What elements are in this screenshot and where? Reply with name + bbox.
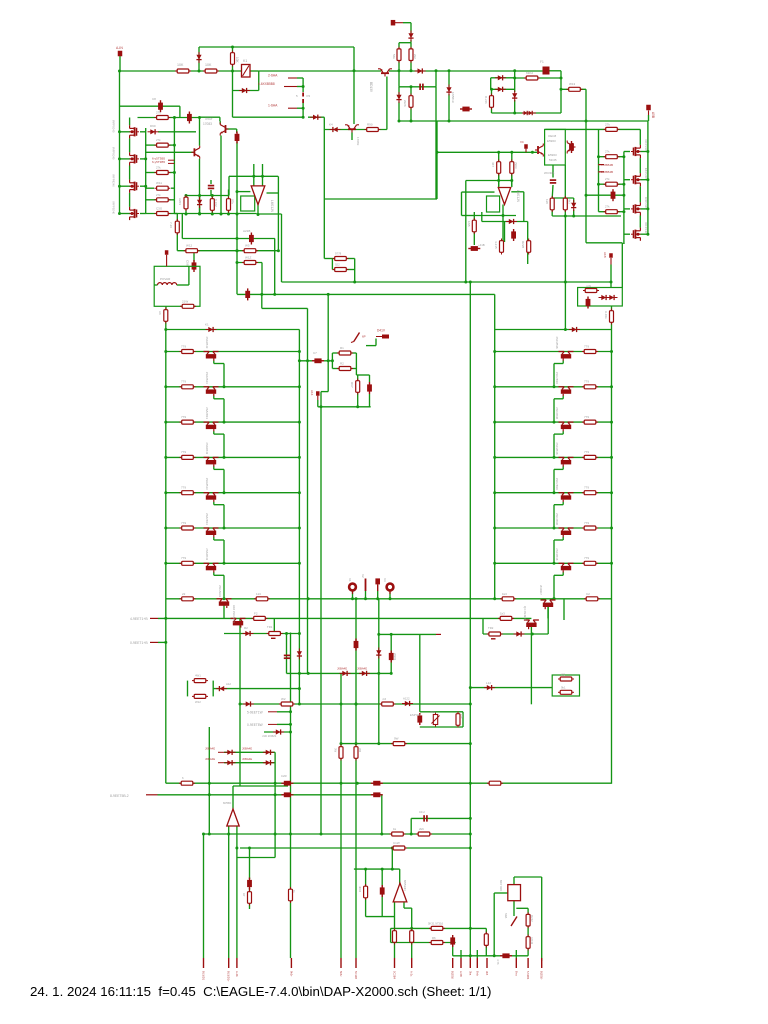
resistor R243 <box>526 935 530 951</box>
wire drain feed l1 <box>129 118 131 126</box>
wire row 743 <box>341 743 470 745</box>
svg-text:5-9EET1W: 5-9EET1W <box>247 711 263 715</box>
junction <box>236 237 239 240</box>
wire r120 row <box>515 77 561 79</box>
svg-text:9k1: 9k1 <box>561 686 566 690</box>
resistor W1 118 <box>558 677 574 681</box>
svg-text:2SA2B43: 2SA2B43 <box>205 337 209 349</box>
wire r126 stub <box>185 196 187 197</box>
wire clb r1 <box>347 258 355 260</box>
wire r162 top <box>511 152 513 162</box>
wire u2 fb top <box>511 191 524 193</box>
resistor R162 <box>510 160 514 176</box>
wire d row <box>515 112 561 114</box>
svg-text:X94Y: X94Y <box>205 117 214 121</box>
wire gate tap l1 <box>140 131 146 133</box>
junction <box>398 69 401 72</box>
svg-text:2N4907: 2N4907 <box>539 585 543 595</box>
junction <box>307 672 310 675</box>
resistor R164 <box>472 218 476 234</box>
junction <box>236 190 239 193</box>
net stub 0-6035B4Bb <box>599 171 605 173</box>
pin stub A16 <box>317 396 319 400</box>
wire col 379 <box>378 599 380 744</box>
wire q51 e drop <box>547 604 549 618</box>
wire q33 e3 <box>223 469 225 492</box>
junction <box>469 703 472 706</box>
wire r1k top <box>611 306 613 311</box>
junction <box>164 456 167 459</box>
wire pin 516 stub <box>515 950 517 958</box>
box R1B cluster <box>578 288 623 307</box>
svg-text:4-215: 4-215 <box>494 241 498 249</box>
wire diode branch <box>198 47 200 71</box>
capacitor C62 <box>460 107 472 112</box>
resistor R132 779 <box>180 420 196 424</box>
resistor R125 <box>175 219 179 235</box>
zener diode Z7 <box>376 648 381 659</box>
svg-text:R2: R2 <box>340 362 344 366</box>
switch S9A <box>511 917 517 927</box>
pin A-2b <box>236 958 238 968</box>
junction <box>327 293 330 296</box>
junction <box>610 456 613 459</box>
svg-text:J0BA4E: J0BA4E <box>205 747 215 751</box>
junction <box>298 456 301 459</box>
wire pin 477 stub <box>476 950 478 958</box>
wire q40 e3 <box>553 364 555 387</box>
pin 5C2B4 <box>394 958 396 968</box>
svg-text:M/55D: M/55D <box>223 801 231 805</box>
svg-text:R1: R1 <box>340 346 344 350</box>
wire r122 link <box>492 112 515 114</box>
junction <box>380 833 383 836</box>
wire c11 low <box>210 190 212 196</box>
wire c10 top <box>236 129 238 133</box>
junction <box>622 155 625 158</box>
pin stub VREF <box>395 22 403 24</box>
wire r122 top <box>491 89 493 96</box>
wire col 411b <box>411 942 413 958</box>
wire u2 in row <box>466 180 512 182</box>
svg-text:779: 779 <box>181 486 186 490</box>
wire drv to bank <box>564 216 566 330</box>
trimmer TR1 wiper <box>271 637 276 639</box>
junction <box>553 385 556 388</box>
wire c7 row <box>299 360 332 362</box>
junction <box>364 868 367 871</box>
svg-text:A5B: A5B <box>651 112 655 118</box>
wire u2 fb col <box>523 192 525 222</box>
junction <box>236 261 239 264</box>
wire down to r1b <box>621 243 623 288</box>
svg-text:L12: L12 <box>486 681 491 685</box>
wire rail 848 <box>240 847 470 849</box>
wire bank row r5 <box>495 492 612 494</box>
wire bank row r6 <box>495 527 612 529</box>
svg-text:IRFP9240: IRFP9240 <box>112 120 116 133</box>
svg-text:R6: R6 <box>432 936 436 940</box>
wire r6y bot <box>357 392 359 407</box>
wire rail tap l2 <box>120 158 131 160</box>
pin A-5B <box>460 958 462 968</box>
svg-text:2SC2B38: 2SC2B38 <box>555 337 559 349</box>
wire q32 e2 <box>214 433 224 435</box>
net stub d29 <box>218 751 224 753</box>
junction <box>298 562 301 565</box>
junction <box>597 155 600 158</box>
wire output rail B <box>158 617 531 619</box>
wire ic8 leg2 <box>236 826 238 958</box>
wire bank row l4 <box>166 456 300 458</box>
wire col 541 <box>541 877 543 961</box>
svg-text:27k: 27k <box>605 122 610 126</box>
mosfet Q20 IRFP9240 <box>130 125 139 138</box>
svg-text:2SC2B38: 2SC2B38 <box>555 513 559 525</box>
pin 5C12B <box>355 958 357 968</box>
wire q33 e2 <box>214 468 224 470</box>
wire bank row l3 <box>166 421 300 423</box>
wire q7c <box>219 121 221 125</box>
wire q31 e1 <box>213 396 215 399</box>
wire bias row r <box>483 633 548 635</box>
junction <box>553 597 556 600</box>
wire r119 bot <box>410 107 412 121</box>
net stub 2-6AA <box>288 77 297 79</box>
wire box inner <box>188 266 190 285</box>
trimmer TR2 wiper <box>491 638 496 640</box>
wire r1c l <box>332 352 339 354</box>
wire row 308 <box>262 307 308 309</box>
wire corner right <box>179 106 181 117</box>
wire row 857 <box>237 857 275 859</box>
resistor 12W 22k <box>456 712 460 728</box>
svg-text:4 76: 4 76 <box>496 959 500 965</box>
wire bank top right <box>495 329 612 331</box>
wire r122 bot <box>491 107 493 113</box>
transistor Q42 2SC2B38 <box>559 422 574 431</box>
wire output rail A <box>166 598 612 600</box>
wire col 341 <box>340 673 342 958</box>
svg-text:2-6AA: 2-6AA <box>268 74 278 78</box>
svg-text:POVAR: POVAR <box>160 277 171 281</box>
diode D30 <box>263 750 274 755</box>
svg-text:IRFP240: IRFP240 <box>644 168 648 179</box>
svg-text:TR2: TR2 <box>488 626 494 630</box>
junction <box>257 213 260 216</box>
svg-text:4W1: 4W1 <box>195 674 201 678</box>
svg-text:J0BA4E: J0BA4E <box>205 757 215 761</box>
svg-text:0-9EET1+B: 0-9EET1+B <box>130 641 148 645</box>
wire c7 col <box>331 353 333 369</box>
wire drain feed 1 <box>639 129 641 145</box>
svg-text:20202: 20202 <box>393 653 397 661</box>
wire row 877 <box>514 876 542 878</box>
wire bank row r1 <box>495 351 612 353</box>
mosfet Q10 IRFP240 <box>631 145 640 158</box>
wire r118 top <box>410 43 412 49</box>
svg-text:2SA2B43: 2SA2B43 <box>205 442 209 454</box>
wire gate tap l2 <box>140 158 146 160</box>
resistor R143 779 <box>582 455 598 459</box>
pin flag A5B <box>646 105 651 111</box>
svg-text:R2: R2 <box>244 626 248 630</box>
wire s9a link <box>516 907 528 909</box>
junction <box>298 632 301 635</box>
wire col 290 <box>290 633 292 959</box>
wire a1b stub <box>610 265 612 288</box>
svg-text:IRFP9240: IRFP9240 <box>112 174 116 187</box>
junction <box>610 527 613 530</box>
svg-text:2SA2B43: 2SA2B43 <box>205 478 209 490</box>
junction <box>331 359 334 362</box>
resistor R184 <box>416 832 432 836</box>
resistor 9k1 <box>558 690 574 694</box>
diode L12 <box>484 685 495 690</box>
svg-text:9W: 9W <box>394 737 399 741</box>
junction <box>164 617 167 620</box>
resistor R128 <box>227 197 231 213</box>
wire gate row l2b <box>146 144 156 146</box>
wire vas link row <box>437 151 537 153</box>
transistor Q52 <box>231 618 246 627</box>
wire gate row l4b <box>146 199 156 201</box>
svg-text:C1U: C1U <box>419 810 425 814</box>
resistor 3W <box>339 745 343 761</box>
wire d2 top <box>513 877 515 885</box>
wire clb left col <box>331 259 333 270</box>
wire z4 bot <box>573 210 575 217</box>
svg-text:W12: W12 <box>186 244 193 248</box>
transistor Q50 2SC4943 <box>217 599 232 608</box>
svg-text:2SCA943: 2SCA943 <box>218 585 222 597</box>
junction <box>298 703 301 706</box>
svg-text:779: 779 <box>584 344 589 348</box>
wire col 275a <box>274 752 276 857</box>
net stub 6P <box>376 336 382 338</box>
wire left col down <box>176 214 178 251</box>
transistor Q34 2SA2B43 <box>204 493 219 502</box>
svg-text:P2: P2 <box>307 94 311 98</box>
wire rpairL right <box>212 681 214 697</box>
junction <box>410 85 413 88</box>
wire q41 e2 <box>554 398 563 400</box>
svg-text:5C2B4: 5C2B4 <box>393 971 397 979</box>
svg-text:5C12B: 5C12B <box>354 971 358 979</box>
svg-text:A12: A12 <box>226 682 231 686</box>
junction <box>298 687 301 690</box>
svg-text:2k6: 2k6 <box>419 827 424 831</box>
svg-text:53CB: 53CB <box>549 158 557 162</box>
resistor R171 113 <box>254 597 270 601</box>
wire col 392 top <box>391 848 393 869</box>
wire z4 top <box>573 198 575 203</box>
wire branch top <box>399 42 411 44</box>
wire ds chain l3 <box>129 193 131 207</box>
diode A122 <box>402 701 413 706</box>
svg-text:R243: R243 <box>530 938 534 945</box>
wire u1 apex out <box>257 203 259 215</box>
svg-text:C3G: C3G <box>156 207 163 211</box>
wire zig end <box>623 243 625 244</box>
svg-text:2SA2B43: 2SA2B43 <box>205 407 209 419</box>
wire col 390 <box>390 928 392 942</box>
wire r2c l <box>332 368 339 370</box>
capacitor C6S <box>371 792 383 797</box>
junction <box>391 847 394 850</box>
wire q32 e3 <box>223 434 225 457</box>
svg-text:R242: R242 <box>530 915 534 922</box>
wire ds chain 3 <box>639 216 641 228</box>
transistor Q45 2SC2B38 <box>559 528 574 537</box>
junction <box>377 633 380 636</box>
wire link 391 <box>321 391 328 393</box>
wire pin 461 stub <box>460 950 462 958</box>
wire r161 bot <box>498 173 500 186</box>
wire jog <box>174 213 177 215</box>
svg-text:779: 779 <box>181 380 186 384</box>
wire rail 834 <box>204 833 471 835</box>
wire q7 coll stub <box>219 117 221 121</box>
junction <box>436 151 439 154</box>
junction <box>390 633 393 636</box>
resistor R163 <box>500 239 504 255</box>
wire gate row 3 <box>599 183 607 185</box>
wire ic2a elbow <box>404 907 412 909</box>
op-amp IC8 <box>227 809 239 826</box>
wire q34 e2 <box>214 504 224 506</box>
wire cap row <box>586 194 624 196</box>
junction <box>448 69 451 72</box>
op-amp U1 <box>251 186 265 205</box>
svg-text:7k03: 7k03 <box>514 162 518 169</box>
junction <box>289 710 292 713</box>
svg-text:W11: W11 <box>156 181 162 185</box>
wire ic8 top <box>232 786 234 809</box>
svg-text:63K2: 63K2 <box>526 71 533 75</box>
junction <box>469 742 472 745</box>
resistor R182 4006 <box>364 884 368 900</box>
wire ds chain 1 <box>639 158 641 173</box>
wire u1 top row <box>229 175 278 177</box>
pin B(30)5 <box>452 958 454 968</box>
wire left drain rail <box>119 71 121 214</box>
svg-text:IRFP240: IRFP240 <box>644 140 648 151</box>
junction <box>298 491 301 494</box>
wire net vertical lower <box>302 103 304 117</box>
wire q34 e3 <box>223 505 225 528</box>
junction <box>510 151 513 154</box>
wire q40 e2 <box>554 363 563 365</box>
diode D21 <box>506 219 517 224</box>
wire rail cont2 <box>399 70 449 72</box>
wire q44 e2 <box>554 504 563 506</box>
svg-text:C7: C7 <box>313 351 317 355</box>
capacitor Cq9 <box>569 141 574 153</box>
wire q36 e2 <box>214 574 224 576</box>
wire r121 row <box>561 88 586 90</box>
junction <box>493 491 496 494</box>
resistor R172 1k3 <box>500 597 516 601</box>
junction <box>410 120 413 123</box>
wire drv bottom row <box>552 215 621 217</box>
pin B+a <box>515 958 517 968</box>
diode D41 <box>495 87 506 92</box>
resistor A6 103 <box>164 308 168 324</box>
svg-text:97k: 97k <box>231 199 235 204</box>
junction <box>597 183 600 186</box>
junction <box>223 491 226 494</box>
wire r128 top <box>228 190 230 200</box>
junction <box>493 350 496 353</box>
wire tr out <box>165 306 167 310</box>
resistor W12b <box>192 694 208 698</box>
junction <box>185 194 188 197</box>
svg-text:6-6XXB5B8: 6-6XXB5B8 <box>258 82 275 86</box>
resistor R134 779 <box>180 491 196 495</box>
svg-text:A-2b: A-2b <box>235 971 239 977</box>
resistor R122 <box>490 94 494 110</box>
resistor R6Y 5k1 <box>356 379 360 395</box>
wire r1c r <box>351 352 356 354</box>
junction <box>469 847 472 850</box>
resistor R116 10K <box>231 51 235 67</box>
junction <box>376 597 379 600</box>
wire stub 724 <box>277 723 291 725</box>
wire q31 e3 <box>223 399 225 422</box>
switch S1 contact <box>351 342 354 343</box>
jumper JP1 <box>302 93 304 104</box>
svg-text:779: 779 <box>584 486 589 490</box>
svg-text:E5963: E5963 <box>547 139 556 143</box>
svg-text:10K: 10K <box>235 57 239 64</box>
wire q45 e1 <box>562 537 564 540</box>
wire col 240 <box>239 618 241 786</box>
junction <box>469 782 472 785</box>
svg-text:OEC8: OEC8 <box>548 134 557 138</box>
diode D40 <box>495 75 506 80</box>
wire bias row l <box>224 633 299 635</box>
diode D20 <box>569 327 580 332</box>
resistor W1Z <box>242 261 258 265</box>
resistor W2 118 <box>279 702 295 706</box>
svg-text:17083: 17083 <box>203 122 212 126</box>
wire rail cont <box>389 70 399 72</box>
resistor R166 4k3 <box>563 196 567 212</box>
resistor R130 779 <box>180 350 196 354</box>
svg-text:R228: R228 <box>521 241 525 249</box>
diode D26 <box>340 671 351 676</box>
wire s1 a <box>366 345 376 347</box>
wire q42 e3 <box>553 434 555 457</box>
resistor C1W <box>391 846 407 850</box>
svg-text:IRFP240: IRFP240 <box>644 222 648 233</box>
resistor R141 779 <box>582 385 598 389</box>
transistor Q53 <box>524 620 539 629</box>
wire c12 branch <box>435 71 437 87</box>
junction <box>355 597 358 600</box>
junction <box>560 88 563 91</box>
junction <box>223 597 226 600</box>
wire z2 bot <box>448 94 450 121</box>
diode D19 <box>206 327 217 332</box>
svg-text:J0BA4E: J0BA4E <box>357 667 367 671</box>
junction <box>410 927 413 930</box>
pin terminal X3 <box>375 578 380 584</box>
junction <box>208 793 211 796</box>
wire row 238 <box>182 238 275 240</box>
resistor A-R1k <box>610 309 614 325</box>
